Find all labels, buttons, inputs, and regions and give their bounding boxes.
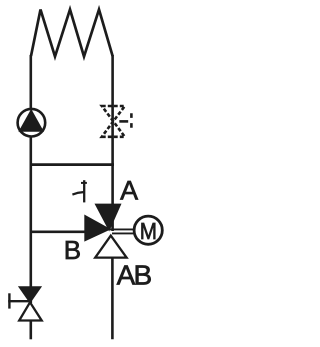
future valve (dashed shut-off valve) xyxy=(102,106,132,137)
shut-off valve V2: bottom triangle (open) xyxy=(19,302,42,320)
wire: lower horizontal branch to port B xyxy=(30,230,86,233)
3-way valve: port B triangle (filled) xyxy=(84,215,111,242)
future valve stem xyxy=(119,120,128,123)
sensor tap xyxy=(72,180,87,202)
svg-text:A: A xyxy=(120,176,138,206)
svg-text:M: M xyxy=(140,218,157,244)
heating coil (zigzag) xyxy=(31,10,113,57)
svg-text:B: B xyxy=(64,235,81,265)
wire: left supply pipe xyxy=(29,55,32,303)
3-way valve: port AB triangle (open) xyxy=(95,236,126,258)
pump P1 xyxy=(18,109,46,137)
wire: right return pipe xyxy=(111,55,114,231)
wire: pipe below AB port xyxy=(111,258,114,340)
valve V2 handle xyxy=(8,293,29,308)
wire: upper horizontal branch xyxy=(30,163,115,166)
future valve handle xyxy=(130,113,133,128)
actuator stem (double line) xyxy=(110,229,135,233)
3-way valve: port A triangle (filled) xyxy=(95,204,122,232)
shut-off valve V2: top triangle (filled) xyxy=(18,286,42,303)
wire: left pipe below valve V2 xyxy=(29,321,32,340)
svg-text:AB: AB xyxy=(117,259,152,290)
motor M circle xyxy=(134,216,162,244)
